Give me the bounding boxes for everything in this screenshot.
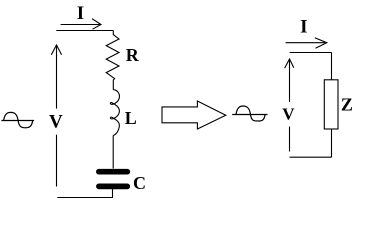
wire top-to-Z (331, 53, 333, 81)
wire bottom (left circuit) (57, 197, 113, 199)
resistor R (106, 31, 119, 90)
current arrow I (left) (61, 19, 101, 30)
equivalence block arrow (162, 101, 226, 129)
wire capacitor-to-bottom (112, 189, 114, 198)
wire top (left circuit) (56, 30, 113, 32)
svg-text:L: L (125, 108, 137, 128)
capacitor C (two plates) (99, 169, 127, 175)
AC source left (sine symbol) (1, 112, 34, 127)
voltage arrow V (right) (285, 59, 294, 152)
wire inductor-to-capacitor (112, 136, 114, 169)
wire top (right circuit) (290, 52, 332, 54)
svg-text:Z: Z (341, 95, 353, 115)
svg-text:C: C (133, 173, 146, 193)
svg-text:I: I (300, 16, 307, 37)
current arrow I (right) (286, 38, 327, 49)
AC source right (sine symbol) (232, 106, 267, 121)
inductor L (110, 90, 119, 136)
wire bottom (right circuit) (290, 156, 332, 158)
impedance Z (box) (324, 80, 338, 129)
svg-text:V: V (282, 105, 295, 124)
svg-text:V: V (49, 111, 63, 132)
svg-text:I: I (77, 3, 84, 24)
voltage arrow V (left) (51, 45, 61, 187)
svg-text:R: R (126, 45, 140, 65)
wire Z-to-bottom (331, 129, 333, 157)
